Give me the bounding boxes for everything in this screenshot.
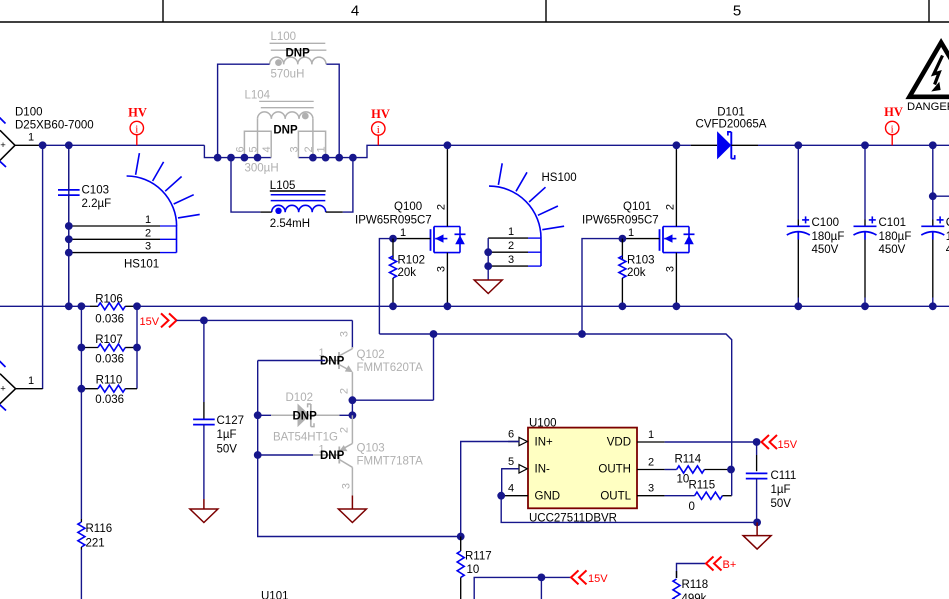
node junction VDD 15V node [753, 438, 761, 446]
pin 3 OUTL [637, 483, 665, 496]
svg-text:R102: R102 [398, 254, 426, 266]
pin 1 of D100 [15, 132, 43, 146]
diode D102 (DNP) [271, 392, 340, 444]
svg-text:4: 4 [351, 3, 359, 20]
svg-text:CVFD20065A: CVFD20065A [696, 118, 767, 130]
wire bottom 15V node [474, 577, 571, 599]
svg-text:DNP: DNP [320, 355, 345, 367]
svg-text:0.036: 0.036 [95, 354, 124, 366]
node junction R110 left [78, 385, 86, 393]
node junction bus x=257.5 [254, 154, 262, 162]
svg-text:L105: L105 [270, 180, 296, 192]
node junction gate bus x=433.5 [430, 330, 438, 338]
svg-text:3: 3 [436, 266, 448, 272]
label DNP Q102 [320, 355, 345, 367]
node junction bus x=231 [227, 154, 235, 162]
transistor Q101 labels [582, 201, 659, 227]
svg-text:3: 3 [665, 266, 677, 272]
node junction gate bus x=582 [578, 330, 586, 338]
power port HV (right) [884, 105, 903, 145]
wire L105 right lead [343, 158, 353, 213]
svg-text:3: 3 [339, 331, 351, 337]
capacitor C103 [58, 145, 111, 306]
svg-text:DNP: DNP [286, 48, 311, 60]
svg-text:U100: U100 [529, 417, 557, 429]
svg-text:C101: C101 [879, 217, 907, 229]
bridge rectifier D100 body (upper, cut at left edge) [0, 117, 15, 167]
svg-text:10: 10 [677, 474, 690, 486]
svg-text:5: 5 [508, 456, 514, 468]
node junction C127 top [200, 317, 208, 325]
pin 2 label Q100 [436, 204, 448, 210]
resistor R118 [673, 571, 708, 599]
node junction bottom x=541.4 [538, 574, 546, 582]
op-amp U100 gate driver body [528, 417, 637, 524]
wire Q103 base [258, 454, 313, 456]
pin 2 label Q101 [665, 204, 677, 210]
node junction C101 bottom [861, 302, 869, 310]
svg-text:0: 0 [689, 501, 695, 513]
svg-text:2.54mH: 2.54mH [270, 218, 310, 230]
diode D101 labels [696, 107, 767, 131]
svg-text:50V: 50V [217, 443, 238, 455]
svg-text:50V: 50V [771, 498, 792, 510]
sheet zone label 4 [351, 3, 359, 20]
svg-text:IPW65R095C7: IPW65R095C7 [582, 215, 659, 227]
transistor Q100 labels [355, 201, 432, 227]
svg-text:1: 1 [628, 227, 634, 239]
node junction bus x=352.9 [349, 154, 357, 162]
svg-text:HV: HV [128, 106, 147, 120]
node junction HS100 pin3 [484, 262, 492, 270]
pin 4 GND [501, 483, 528, 496]
wire stub down from 541.4 [540, 577, 542, 599]
warning triangle DANGER [909, 43, 949, 97]
node junction Q100 drain on rail [444, 141, 452, 149]
svg-text:L100: L100 [271, 31, 297, 43]
svg-text:2: 2 [508, 240, 514, 252]
wire right-edge stub [933, 195, 949, 197]
heatsink HS100 [488, 163, 576, 266]
sheet border tick x=163 [162, 0, 164, 22]
svg-text:R107: R107 [95, 334, 123, 346]
node junction D102 left [254, 411, 262, 419]
svg-text:2: 2 [303, 146, 315, 152]
wire Q100 drain [446, 145, 448, 226]
svg-text:C127: C127 [217, 415, 245, 427]
pin 1 label Q100 [400, 227, 406, 239]
inductor L105 [260, 180, 343, 230]
svg-text:D100: D100 [15, 107, 43, 119]
svg-text:L104: L104 [245, 90, 271, 102]
power port 15V (bottom) [571, 570, 608, 585]
svg-text:2: 2 [665, 204, 677, 210]
wire L100 left lead [218, 64, 270, 157]
svg-text:R103: R103 [627, 254, 655, 266]
node junction bus x=339.2 [335, 154, 343, 162]
wire vertical left-edge D100 link [42, 145, 44, 389]
node junction at (42,145) [39, 141, 47, 149]
node junction return x=81.4 [78, 302, 86, 310]
wire Q102 emitter to gate-drive node [352, 399, 433, 401]
resistor R115 [665, 480, 732, 513]
node junction C102 bottom [929, 302, 937, 310]
svg-text:221: 221 [86, 537, 105, 549]
node junction Q101 gate [619, 235, 627, 243]
svg-text:HS100: HS100 [542, 172, 577, 184]
label D100 [15, 107, 43, 119]
wire D102 anode [258, 414, 271, 416]
svg-text:3: 3 [288, 146, 300, 152]
svg-text:10: 10 [467, 564, 480, 576]
wire Q101 source [675, 253, 677, 307]
op-amp U101 label (cut off) [261, 590, 289, 599]
svg-text:D102: D102 [286, 392, 314, 404]
node junction HS100 pin2 [484, 248, 492, 256]
wire Q100 gate to gate bus [379, 239, 393, 334]
svg-text:R116: R116 [86, 523, 113, 535]
wire DNP-driver input column [258, 361, 461, 537]
wire top rail left [43, 144, 205, 146]
node junction C111 bottom [753, 519, 761, 527]
inductor L100 (DNP) [270, 31, 327, 81]
svg-text:0.036: 0.036 [95, 314, 124, 326]
wire L105 left lead [231, 158, 260, 213]
ground at HS100 [474, 280, 502, 294]
capacitor C127 [193, 320, 244, 499]
node junction Q102 emitter [349, 396, 357, 404]
capacitor C101 [854, 145, 912, 306]
svg-text:DANGER: DANGER [907, 101, 949, 113]
svg-text:1µF: 1µF [217, 429, 237, 441]
node junction R103 bottom [619, 302, 627, 310]
node junction HS101 pin3 [65, 249, 73, 257]
sheet zone label 5 [733, 3, 741, 20]
svg-text:D101: D101 [717, 107, 745, 119]
wire 15V to Q102 collector [351, 320, 353, 348]
svg-text:1: 1 [508, 226, 514, 238]
label DNP Q103 [320, 450, 345, 462]
label D25XB60-7000 [15, 119, 94, 131]
sheet border tick x=546 [545, 0, 547, 22]
capacitor C102 [921, 145, 949, 306]
svg-text:3: 3 [508, 254, 514, 266]
wire R118 to B+ [677, 564, 707, 579]
wire rail D101 to caps [758, 144, 949, 146]
svg-text:2: 2 [339, 388, 351, 394]
pin 3 label Q100 [436, 266, 448, 272]
node junction bus x=312.9 [309, 154, 317, 162]
node junction R107 left [78, 344, 86, 352]
svg-text:R114: R114 [675, 453, 702, 465]
svg-text:Q101: Q101 [623, 201, 651, 213]
node junction gate node [727, 466, 735, 474]
pin 6 IN+ [508, 429, 527, 446]
node junction Q101 source on return rail [673, 302, 681, 310]
wire R115 to gate node [731, 470, 733, 496]
resistor R116 [78, 519, 112, 550]
power port B+ [706, 557, 736, 571]
node junction GND pin [497, 492, 505, 500]
power port 15V (left) [140, 313, 177, 328]
svg-text:1: 1 [28, 375, 34, 387]
svg-text:2: 2 [339, 427, 351, 433]
node junction Q103 base [254, 451, 262, 459]
wire gate bus [379, 334, 731, 470]
svg-text:+: + [0, 384, 6, 395]
node junction at (69,145) [65, 141, 73, 149]
wire GND to ground bus [501, 496, 757, 523]
wire Q102 base [258, 360, 325, 362]
svg-text:C111: C111 [771, 470, 797, 482]
capacitor C111 [746, 442, 796, 522]
wire return rail left [0, 305, 90, 307]
node junction D102 right [349, 411, 357, 419]
wire Q101 drain [675, 145, 677, 226]
svg-text:1µF: 1µF [771, 484, 791, 496]
node junction Q101 drain on rail [673, 141, 681, 149]
wire Q101 gate to gate bus [582, 239, 622, 334]
wire shunt right column [136, 306, 138, 388]
power port HV (middle) [371, 107, 390, 145]
node junction right-edge stub [929, 192, 937, 200]
svg-text:20k: 20k [627, 267, 646, 279]
svg-text:2.2µF: 2.2µF [82, 198, 112, 210]
node junction return x=68.8 [65, 302, 73, 310]
resistor R102 [390, 239, 426, 307]
node junction R102 bottom [389, 302, 397, 310]
label DNP D102 [293, 410, 318, 422]
svg-text:450V: 450V [812, 244, 839, 256]
resistor R117 [457, 537, 491, 599]
svg-text:2: 2 [436, 204, 448, 210]
svg-text:i: i [135, 123, 138, 135]
svg-text:3: 3 [145, 241, 151, 253]
wire IN- to GND [502, 469, 519, 496]
svg-text:R118: R118 [682, 579, 709, 591]
diode D101 [691, 131, 758, 159]
wire emitter node up to gate bus [433, 334, 435, 400]
sheet border horizontal [0, 21, 949, 23]
svg-text:570uH: 570uH [271, 69, 305, 81]
svg-text:0.036: 0.036 [95, 394, 124, 406]
wire 15V feed [177, 319, 353, 321]
svg-text:1: 1 [145, 214, 151, 226]
node junction bus x=325.6 [322, 154, 330, 162]
wire vertical bus-left drop [204, 145, 271, 157]
resistor R103 [619, 239, 655, 307]
wire Q100 source [446, 253, 448, 307]
wire R116 column [80, 389, 82, 599]
svg-text:BAT54HT1G: BAT54HT1G [273, 432, 338, 444]
wire mid bus right segment [298, 145, 690, 157]
svg-text:R110: R110 [96, 374, 123, 386]
pin 1 label Q101 [628, 227, 634, 239]
wire return rail right [137, 305, 949, 307]
transformer L104 (DNP) [234, 90, 327, 175]
svg-text:HS101: HS101 [124, 258, 159, 270]
svg-text:450V: 450V [879, 244, 906, 256]
label DANGER [907, 101, 949, 113]
svg-text:R106: R106 [95, 293, 123, 305]
svg-text:3: 3 [341, 483, 353, 489]
svg-text:FMMT718TA: FMMT718TA [357, 456, 424, 468]
svg-text:IN+: IN+ [535, 436, 554, 448]
pin 2 OUTH [637, 456, 665, 469]
svg-text:Q102: Q102 [357, 349, 385, 361]
wire HS100 pin tie [487, 238, 489, 279]
svg-text:i: i [891, 123, 894, 135]
svg-text:R117: R117 [465, 551, 492, 563]
node junction Q100 gate [389, 235, 397, 243]
svg-text:B+: B+ [723, 559, 737, 571]
svg-text:HV: HV [884, 105, 903, 119]
ground at C111 [743, 522, 771, 549]
svg-text:OUTH: OUTH [598, 464, 631, 476]
pin 1 of D100 lower [16, 375, 43, 389]
svg-text:C100: C100 [812, 217, 840, 229]
svg-text:FMMT620TA: FMMT620TA [357, 362, 424, 374]
sheet border tick x=929 [928, 0, 930, 22]
wire Q101 gate lead [622, 238, 659, 240]
transistor Q101 (MOSFET) [660, 227, 695, 253]
svg-text:Q100: Q100 [394, 201, 422, 213]
node junction C100 top [794, 141, 802, 149]
svg-text:6: 6 [508, 429, 514, 441]
transistor Q103 (DNP) [313, 415, 423, 495]
svg-text:1: 1 [400, 227, 406, 239]
svg-text:1: 1 [648, 429, 654, 441]
svg-text:IPW65R095C7: IPW65R095C7 [355, 215, 432, 227]
wire Q102-Q103 emitter link [351, 400, 353, 415]
node junction Q100 source on return rail [444, 302, 452, 310]
transistor Q100 (MOSFET) [431, 227, 466, 253]
resistor R114 [665, 453, 731, 485]
svg-text:R115: R115 [689, 480, 716, 492]
svg-text:6: 6 [234, 146, 246, 152]
svg-text:20k: 20k [398, 267, 417, 279]
svg-text:3: 3 [648, 483, 654, 495]
svg-text:15V: 15V [778, 439, 798, 451]
node junction C102 top [929, 141, 937, 149]
ground at Q103 [338, 496, 366, 523]
svg-text:499k: 499k [682, 593, 707, 599]
svg-text:1: 1 [28, 132, 34, 144]
node junction HS101 pin1 [65, 222, 73, 230]
svg-text:4: 4 [261, 146, 273, 152]
heatsink HS101 [69, 153, 200, 270]
node junction HS101 pin2 [65, 235, 73, 243]
svg-text:2: 2 [145, 227, 151, 239]
pin 3 label Q101 [665, 266, 677, 272]
svg-text:300µH: 300µH [245, 163, 279, 175]
pin 5 IN- [502, 456, 528, 473]
svg-text:5: 5 [733, 3, 741, 20]
svg-text:180µF: 180µF [879, 231, 912, 243]
wire Q100 gate lead [393, 238, 431, 240]
svg-text:D25XB60-7000: D25XB60-7000 [15, 119, 94, 131]
svg-text:Q103: Q103 [357, 443, 385, 455]
transistor Q102 (DNP) [318, 331, 423, 400]
node junction bus x=217.6 [214, 154, 222, 162]
resistor R110 [81, 374, 137, 406]
svg-text:2: 2 [648, 456, 654, 468]
node junction R117 top [457, 533, 465, 541]
svg-text:HV: HV [371, 107, 390, 121]
power port 15V (at VDD) [762, 435, 798, 451]
svg-text:OUTL: OUTL [600, 490, 631, 502]
capacitor C100 [787, 145, 845, 306]
power port HV (left) [128, 106, 147, 146]
svg-text:+: + [0, 140, 6, 151]
pin 1 VDD [637, 429, 665, 442]
svg-text:DNP: DNP [273, 124, 298, 136]
node junction C100 bottom [794, 302, 802, 310]
svg-text:VDD: VDD [607, 436, 631, 448]
svg-text:GND: GND [535, 490, 561, 502]
svg-text:4: 4 [508, 483, 514, 495]
svg-text:U101: U101 [261, 590, 289, 599]
wire D102 cathode [340, 414, 353, 416]
svg-text:15V: 15V [588, 573, 608, 585]
node junction return x=137 [133, 302, 141, 310]
svg-text:i: i [377, 124, 380, 136]
svg-text:1: 1 [316, 146, 328, 152]
bridge rectifier D100 body (lower, cut at left edge) [0, 361, 16, 411]
node junction C101 top [861, 141, 869, 149]
ground at C127 [190, 499, 218, 523]
svg-text:C103: C103 [82, 185, 110, 197]
svg-text:DNP: DNP [320, 450, 345, 462]
resistor R106 [90, 293, 137, 325]
wire shunt left column [80, 306, 82, 388]
node junction bus x=244.4 [241, 154, 249, 162]
wire L100 right lead [326, 64, 339, 157]
svg-text:IN-: IN- [535, 464, 551, 476]
svg-text:180µF: 180µF [812, 231, 845, 243]
wire VDD to 15V [665, 441, 758, 443]
resistor R107 [81, 334, 137, 366]
svg-text:15V: 15V [140, 316, 160, 328]
wire IN+ to input node [461, 442, 520, 537]
node junction R107 right [133, 344, 141, 352]
svg-text:DNP: DNP [293, 410, 318, 422]
wire C103/HS101 column [68, 145, 70, 306]
svg-text:5: 5 [248, 146, 260, 152]
